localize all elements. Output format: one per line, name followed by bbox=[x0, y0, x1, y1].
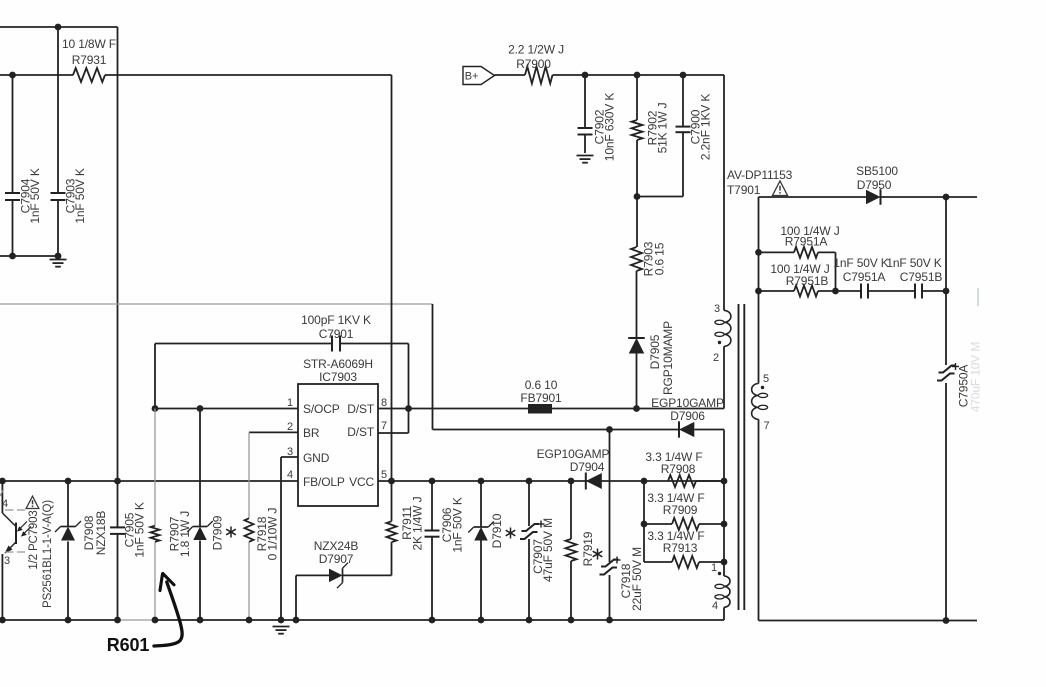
svg-text:B+: B+ bbox=[465, 71, 478, 83]
zener D7909 bbox=[193, 527, 207, 541]
capacitor C7950A electrolytic bbox=[939, 366, 957, 373]
arrow R601 annotation bbox=[154, 582, 182, 646]
wire VCC feed vertical bbox=[391, 75, 393, 481]
resistor R7907 bbox=[151, 526, 160, 542]
svg-text:1nF 50V K: 1nF 50V K bbox=[451, 497, 465, 552]
wire bottom rail bbox=[0, 619, 118, 621]
wire pin3 GND bbox=[281, 456, 298, 458]
svg-text:D7906: D7906 bbox=[670, 409, 705, 423]
diode D7950 bbox=[866, 189, 881, 205]
node junction bottom R7919 bbox=[568, 617, 575, 624]
capacitor C7951A bbox=[860, 284, 862, 299]
svg-text:470uF 10V M: 470uF 10V M bbox=[969, 342, 983, 413]
wire C7901 right bbox=[340, 343, 409, 345]
svg-text:R7909: R7909 bbox=[663, 503, 698, 517]
node junction pin7 tie bbox=[405, 405, 412, 412]
svg-text:EGP10GAMP: EGP10GAMP bbox=[651, 396, 724, 410]
wire B+ rail bbox=[553, 74, 725, 76]
resistor R7902 bbox=[632, 120, 643, 140]
wire R7911 leads bbox=[391, 481, 393, 521]
svg-text:STR-A6069H: STR-A6069H bbox=[303, 357, 373, 371]
wire snubber bottom bbox=[637, 196, 683, 198]
wire D7905 anode lead bbox=[636, 354, 638, 409]
wire C7903 column bbox=[57, 27, 59, 193]
svg-text:R7908: R7908 bbox=[661, 462, 696, 476]
svg-text:D7909: D7909 bbox=[211, 515, 225, 550]
wire R7907 column bbox=[154, 409, 156, 526]
node junction bottom R7918 bbox=[246, 617, 253, 624]
svg-text:NZX24B: NZX24B bbox=[314, 539, 359, 553]
node junction C7900 bbox=[680, 72, 687, 79]
node junction C7904 top bbox=[9, 72, 16, 79]
wire pin2 BR bbox=[249, 431, 298, 433]
wire C7901 left bbox=[155, 343, 332, 345]
node junction D7910-VCC bbox=[478, 478, 485, 485]
svg-text:1nF 50V K: 1nF 50V K bbox=[73, 168, 87, 223]
capacitor C7907 electrolytic bbox=[522, 524, 540, 531]
wire C7900 column bbox=[682, 75, 684, 127]
node junction opto-rail bbox=[0, 478, 6, 485]
svg-text:2: 2 bbox=[713, 352, 719, 364]
svg-text:5: 5 bbox=[381, 469, 387, 481]
wire top-left rail bbox=[0, 26, 118, 28]
wire R7909 row bbox=[644, 523, 672, 525]
wire D7910 column bbox=[480, 481, 482, 527]
resistor R7903 bbox=[631, 247, 642, 271]
wire R7951A row bbox=[759, 251, 795, 253]
diode D7904 bbox=[586, 473, 602, 490]
ground primary aux bbox=[50, 259, 67, 261]
svg-text:0.6 10: 0.6 10 bbox=[525, 378, 558, 392]
svg-text:R7913: R7913 bbox=[663, 541, 698, 555]
svg-text:0 1/10W J: 0 1/10W J bbox=[266, 508, 280, 561]
svg-text:R7951B: R7951B bbox=[786, 274, 829, 288]
node junction bottom pin3 bbox=[278, 617, 285, 624]
wire R7918 column bbox=[248, 432, 250, 518]
node junction C7905-rail bbox=[114, 478, 121, 485]
wire C7907 column bbox=[528, 481, 530, 526]
wire pin3 lead bbox=[723, 75, 725, 310]
wire snubber-to-D7906 bbox=[432, 304, 434, 430]
node junction R7951B right bbox=[832, 288, 839, 295]
resistor R7911 bbox=[387, 521, 397, 542]
svg-text:2: 2 bbox=[287, 421, 293, 433]
svg-text:2.2 1/2W J: 2.2 1/2W J bbox=[508, 43, 564, 57]
svg-text:C7901: C7901 bbox=[319, 327, 354, 341]
svg-text:1: 1 bbox=[287, 397, 293, 409]
node junction output cap bottom bbox=[943, 617, 950, 624]
wire R7903 top lead bbox=[636, 197, 638, 248]
svg-text:10 1/8W F: 10 1/8W F bbox=[62, 37, 116, 51]
wire R7951B row bbox=[759, 290, 795, 292]
diode D7905 bbox=[628, 338, 645, 354]
wire pin8 drain bbox=[378, 408, 528, 410]
svg-text:1.8 1W J: 1.8 1W J bbox=[178, 511, 192, 557]
ferrite bead FB7901 bbox=[528, 404, 552, 414]
wire R-bank left column bbox=[643, 481, 645, 562]
svg-text:EGP10GAMP: EGP10GAMP bbox=[537, 447, 610, 461]
resistor R7951B bbox=[794, 286, 818, 297]
capacitor C7951B bbox=[914, 284, 916, 299]
wire pin2 lead bbox=[723, 346, 725, 408]
resistor R7913 bbox=[672, 556, 699, 568]
node junction pin1-R7907 bbox=[152, 405, 159, 412]
label C7950A value faint bbox=[969, 342, 983, 413]
svg-text:FB/OLP: FB/OLP bbox=[303, 475, 345, 489]
wire R7902 top lead bbox=[636, 75, 638, 120]
zener D7910 bbox=[474, 527, 488, 541]
wire C7906 column bbox=[431, 481, 433, 531]
resistor R7908 bbox=[668, 475, 696, 487]
capacitor C7902 bbox=[578, 127, 593, 129]
svg-text:R7919: R7919 bbox=[581, 531, 595, 566]
wire pin1 S/OCP bbox=[155, 408, 298, 410]
wire C7918 column bbox=[609, 430, 611, 563]
svg-text:3: 3 bbox=[4, 555, 10, 567]
node junction bottom R7907 bbox=[152, 617, 159, 624]
wire R7903 to D7905 bbox=[636, 271, 638, 338]
node junction VCC-R7911 bbox=[388, 478, 395, 485]
transformer primary winding 3-2 bbox=[724, 310, 731, 346]
svg-text:GND: GND bbox=[303, 451, 330, 465]
svg-text:1nF 50V K: 1nF 50V K bbox=[133, 502, 147, 557]
wire aux rail bbox=[0, 74, 73, 76]
svg-text:3: 3 bbox=[714, 303, 720, 315]
wire D7906 to column bbox=[694, 429, 724, 431]
node junction bottom D7907 bbox=[293, 617, 300, 624]
node junction R7951B tap bbox=[755, 288, 762, 295]
svg-text:4: 4 bbox=[2, 498, 8, 510]
node junction bottom C7907 bbox=[526, 617, 533, 624]
svg-text:4: 4 bbox=[712, 600, 718, 612]
capacitor C7901 bbox=[331, 336, 333, 352]
node junction D7905-drain bbox=[633, 405, 640, 412]
ground C7902 bbox=[577, 155, 594, 157]
capacitor C7918 electrolytic bbox=[601, 560, 619, 567]
svg-text:10nF 630V K: 10nF 630V K bbox=[603, 93, 617, 162]
svg-text:4: 4 bbox=[287, 469, 293, 481]
wire pin7 tie bbox=[378, 432, 409, 434]
optocoupler PC7903 phototransistor bbox=[1, 481, 3, 513]
phase dot primary top bbox=[718, 341, 721, 344]
svg-text:D7950: D7950 bbox=[857, 178, 892, 192]
op-amp IC7903 body bbox=[298, 384, 378, 506]
node junction bottom C7905 bbox=[114, 617, 121, 624]
wire pin5 VCC bbox=[378, 480, 724, 482]
optocoupler light arrows bbox=[19, 522, 27, 530]
zener D7907 bbox=[329, 569, 343, 583]
svg-text:1nF 50V K: 1nF 50V K bbox=[886, 256, 941, 270]
node junction D7908-rail bbox=[65, 478, 72, 485]
node junction R7908 right bbox=[721, 478, 728, 485]
wire output bottom rail bbox=[759, 620, 978, 622]
node junction C7903 top bbox=[55, 24, 62, 31]
wire transformer drive column bbox=[723, 481, 725, 576]
ground pin3 bbox=[273, 626, 290, 628]
node junction C7907-VCC bbox=[526, 478, 533, 485]
wire D7909 column bbox=[199, 409, 201, 528]
svg-text:51K 1W J: 51K 1W J bbox=[656, 102, 670, 153]
wire pin7 lead bbox=[758, 419, 760, 620]
wire C7902 column bbox=[584, 75, 586, 128]
plus C7918 bbox=[614, 559, 621, 561]
node junction bottom D7909 bbox=[197, 617, 204, 624]
svg-text:D7907: D7907 bbox=[319, 552, 354, 566]
asterisk D7910 bbox=[510, 528, 512, 539]
zener D7908 bbox=[61, 527, 75, 541]
wire R7908 right bbox=[696, 480, 724, 482]
resistor R7918 bbox=[245, 518, 254, 542]
node junction C7902 bbox=[582, 72, 589, 79]
wire pin4 FB/OLP rail bbox=[0, 480, 298, 482]
node junction C7918 top bbox=[606, 426, 613, 433]
node junction C7906-VCC bbox=[429, 478, 436, 485]
wire D7908 column bbox=[67, 481, 69, 527]
svg-text:S/OCP: S/OCP bbox=[303, 402, 340, 416]
transformer primary winding 1-4 bbox=[724, 576, 730, 607]
resistor R7931 bbox=[73, 68, 105, 82]
wire between caps bbox=[868, 290, 915, 292]
node junction R-bank left mid bbox=[641, 521, 648, 528]
svg-text:D/ST: D/ST bbox=[347, 425, 375, 439]
warning T7901 bbox=[772, 181, 787, 196]
node junction pin1-D7909 bbox=[197, 405, 204, 412]
node junction C7904 bottom bbox=[9, 253, 16, 260]
optocoupler dashes pin3 bbox=[5, 551, 14, 553]
node junction output cap top bbox=[943, 194, 950, 201]
capacitor C7906 bbox=[425, 530, 440, 532]
resistor R7900 bbox=[525, 67, 553, 84]
svg-text:FB7901: FB7901 bbox=[520, 391, 562, 405]
resistor R7951A bbox=[794, 247, 818, 258]
node junction C7903 bottom bbox=[55, 253, 62, 260]
node junction R7909 right bbox=[721, 521, 728, 528]
capacitor C7905 bbox=[110, 526, 125, 528]
node junction bottom opto bbox=[0, 617, 6, 624]
svg-text:IC7903: IC7903 bbox=[319, 370, 357, 384]
warning opto bbox=[26, 496, 39, 508]
wire D7907 row bbox=[296, 574, 329, 576]
phase dot primary bottom bbox=[718, 572, 721, 575]
node junction bottom C7906 bbox=[429, 617, 436, 624]
svg-text:C7951B: C7951B bbox=[900, 270, 943, 284]
node junction snubber bbox=[634, 193, 641, 200]
resistor R7909 bbox=[672, 518, 699, 530]
svg-text:PS2561BL1-1-V-A(Q): PS2561BL1-1-V-A(Q) bbox=[42, 500, 54, 608]
plus C7950A bbox=[952, 366, 959, 368]
svg-text:8: 8 bbox=[381, 397, 387, 409]
svg-text:NZX18B: NZX18B bbox=[94, 511, 108, 556]
artifact faint right edge bbox=[977, 288, 979, 306]
wire bottom rail gray segment bbox=[118, 619, 156, 621]
svg-text:5: 5 bbox=[763, 373, 769, 385]
node junction bottom D7908 bbox=[65, 617, 72, 624]
svg-text:47uF 50V M: 47uF 50V M bbox=[541, 518, 555, 582]
wire B+ to R7900 bbox=[495, 74, 526, 76]
svg-text:D7910: D7910 bbox=[490, 513, 504, 548]
wire long vertical C7905 column bbox=[117, 27, 119, 527]
wire gray horizontal net bbox=[0, 303, 433, 305]
asterisk R7919 bbox=[597, 549, 599, 560]
transformer core bbox=[738, 304, 740, 610]
svg-text:D7905: D7905 bbox=[648, 334, 662, 369]
svg-text:7: 7 bbox=[381, 420, 387, 432]
svg-text:100pF 1KV K: 100pF 1KV K bbox=[301, 313, 371, 327]
wire output top rail bbox=[759, 196, 867, 198]
asterisk D7909 bbox=[230, 527, 232, 538]
node junction bottom C7918 bbox=[606, 617, 613, 624]
svg-text:1/2 PC7903: 1/2 PC7903 bbox=[28, 510, 40, 569]
plus C7907 bbox=[538, 523, 545, 525]
node junction bottom D7910 bbox=[478, 617, 485, 624]
transformer secondary winding 5-7 bbox=[752, 384, 759, 420]
svg-text:RGP10MAMP: RGP10MAMP bbox=[661, 321, 675, 395]
svg-text:R601: R601 bbox=[107, 635, 150, 655]
node junction R7951A tap bbox=[755, 249, 762, 256]
wire R7913 row bbox=[644, 561, 672, 563]
wire output cap column bbox=[945, 197, 947, 365]
node junction R7913 right bbox=[721, 559, 728, 566]
wire bottom of caps bbox=[0, 255, 58, 257]
node junction R7908 left bbox=[641, 478, 648, 485]
svg-text:R7931: R7931 bbox=[72, 53, 107, 67]
wire C7904 column bbox=[12, 75, 14, 193]
svg-text:1nF 50V K: 1nF 50V K bbox=[833, 256, 888, 270]
resistor R7919 bbox=[566, 539, 577, 561]
diode D7906 bbox=[679, 421, 694, 437]
node junction C7951-column bbox=[943, 288, 950, 295]
artifact opto corner bbox=[0, 490, 4, 497]
svg-text:R7951A: R7951A bbox=[785, 235, 828, 249]
phase dot secondary bbox=[761, 386, 764, 389]
optocoupler dashes pin4 bbox=[5, 509, 14, 511]
svg-text:22uF 50V M: 22uF 50V M bbox=[630, 547, 644, 611]
svg-text:SB5100: SB5100 bbox=[856, 164, 898, 178]
wire C7951B to column bbox=[922, 290, 946, 292]
svg-text:BR: BR bbox=[303, 426, 320, 440]
svg-text:D/ST: D/ST bbox=[347, 402, 375, 416]
wire pin5 lead bbox=[758, 197, 760, 384]
port B+ bbox=[463, 67, 495, 85]
svg-text:VCC: VCC bbox=[349, 475, 374, 489]
svg-text:7: 7 bbox=[764, 420, 770, 432]
node junction R7902 bbox=[634, 72, 641, 79]
svg-text:0.6 15: 0.6 15 bbox=[653, 242, 667, 275]
capacitor C7903 bbox=[51, 192, 66, 194]
wire R7902 bottom lead bbox=[636, 140, 638, 197]
svg-text:AV-DP11153: AV-DP11153 bbox=[727, 168, 793, 182]
capacitor C7900 bbox=[676, 126, 691, 128]
svg-text:T7901: T7901 bbox=[727, 183, 761, 197]
svg-text:R7900: R7900 bbox=[516, 57, 551, 71]
svg-text:1nF 50V K: 1nF 50V K bbox=[28, 168, 42, 223]
svg-text:1: 1 bbox=[711, 562, 717, 574]
wire R7919 column bbox=[570, 481, 572, 539]
node junction R7919-VCC bbox=[568, 478, 575, 485]
svg-text:D7904: D7904 bbox=[570, 460, 605, 474]
svg-text:2.2nF 1KV K: 2.2nF 1KV K bbox=[699, 94, 713, 161]
svg-text:2K 1/4W J: 2K 1/4W J bbox=[411, 496, 425, 550]
capacitor C7904 bbox=[5, 192, 20, 194]
svg-text:C7951A: C7951A bbox=[843, 270, 886, 284]
